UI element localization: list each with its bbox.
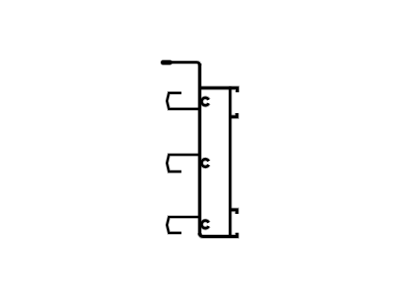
hook terminal 3	[167, 217, 200, 233]
terminal blob at left end of top lead	[163, 60, 170, 66]
terminal stub 2 with up tick	[230, 113, 237, 117]
contact c1	[202, 98, 209, 106]
wire: bottom lead with up tick	[200, 233, 237, 237]
terminal stub 3 with down tick	[230, 210, 237, 214]
wire: right vertical rail	[228, 86, 232, 236]
contact c3	[202, 221, 209, 229]
wire: top lead	[162, 62, 200, 65]
wire: top-right connector lead with down tick	[199, 88, 238, 92]
hook terminal 1	[167, 93, 200, 109]
wire: main vertical bus	[197, 64, 202, 236]
contact c2	[202, 159, 209, 167]
hook terminal 2	[167, 155, 200, 172]
